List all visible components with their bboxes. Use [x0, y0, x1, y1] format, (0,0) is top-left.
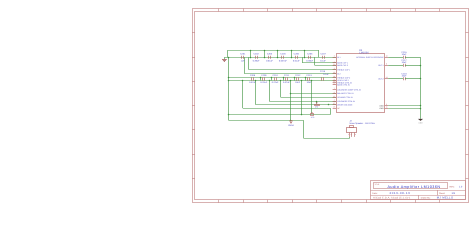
svg-text:KiCad E.D.A. kicad (5.1.4)-1: KiCad E.D.A. kicad (5.1.4)-1: [373, 197, 410, 200]
junction row1 riser: [250, 50, 252, 52]
svg-text:C201: C201: [240, 53, 246, 56]
svg-text:INTERNAL SUPPLY DECOUPLE: INTERNAL SUPPLY DECOUPLE: [356, 56, 384, 59]
svg-text:IN 2: IN 2: [337, 72, 340, 75]
svg-text:0.047uF: 0.047uF: [279, 60, 288, 63]
capacitor C204: [279, 53, 288, 63]
wire staircase2 vertical: [280, 81, 282, 98]
svg-text:4: 4: [334, 99, 335, 102]
U1 pin 5 GND: [379, 103, 388, 107]
svg-text:GND: GND: [379, 104, 384, 107]
svg-text:GND: GND: [419, 122, 424, 125]
svg-text:OUT 1: OUT 1: [378, 64, 383, 67]
U1 pin 13 OUT 2: [378, 76, 388, 80]
svg-text:0.47uF: 0.47uF: [283, 81, 290, 84]
junction control vertical x311: [311, 80, 313, 82]
wire leg to line y69: [248, 57, 250, 69]
capacitor C217: [401, 59, 407, 67]
sheet frame outer border: [193, 9, 469, 203]
U1 pin 8 OUT 1: [378, 63, 388, 67]
svg-text:C213: C213: [306, 74, 312, 77]
capacitor C201: [240, 53, 246, 63]
junction row1 riser: [264, 50, 266, 52]
wire staircase2 horizontal to U1: [281, 97, 336, 99]
wire row1 top rail: [228, 50, 319, 52]
svg-text:20: 20: [333, 63, 335, 66]
svg-text:0.39uF: 0.39uF: [306, 60, 313, 63]
U1 pin 7 LOUDNESS COMP CTRL IN: [333, 87, 362, 91]
U1 pin 16 INTERNAL SUPPLY DECOUPLE: [356, 55, 388, 59]
junction row2 riser: [305, 77, 307, 79]
svg-text:2: 2: [334, 55, 335, 58]
svg-text:17: 17: [333, 102, 335, 105]
U1 pin 17 ZENER VOLTAGE: [333, 102, 354, 106]
wire row1 component line: [224, 57, 336, 59]
wire staircase1 horizontal to U1: [302, 62, 336, 64]
sheet cell separator: [437, 190, 439, 195]
capacitor C213: [306, 74, 312, 84]
capacitor C207: [320, 53, 326, 63]
wire row1 riser: [304, 50, 306, 57]
svg-text:TREBLE CAP 2: TREBLE CAP 2: [337, 77, 350, 80]
svg-text:19: 19: [333, 71, 335, 74]
svg-text:4.7k: 4.7k: [311, 116, 315, 119]
svg-text:C211: C211: [284, 74, 290, 77]
wire row2 riser: [260, 78, 262, 81]
power symbol GND at rail bottom: [418, 119, 423, 125]
svg-text:ZENER VOLTAGE: ZENER VOLTAGE: [337, 104, 353, 107]
U1 pin 10 TREBLE CTRL IN: [333, 80, 353, 84]
svg-text:2019-08-19: 2019-08-19: [390, 191, 411, 195]
svg-text:REV:: REV:: [449, 186, 454, 189]
junction staircase2: [255, 80, 257, 82]
svg-text:18: 18: [333, 75, 335, 78]
capacitor C206: [306, 53, 313, 63]
junction staircase2: [269, 80, 271, 82]
wire staircase1 vertical: [314, 57, 316, 65]
junction row2 riser: [283, 77, 285, 79]
junction row1 riser: [304, 50, 306, 52]
junction row1 riser: [291, 50, 293, 52]
wire rail right drop: [318, 50, 320, 57]
wire E to speaker connector: [304, 138, 350, 140]
capacitor C211: [283, 74, 290, 84]
wire right rail vertical: [420, 57, 422, 119]
wire row2 line a: [229, 77, 336, 79]
U1 pin 6 LEVEL CAP 2: [333, 78, 349, 82]
junction wire B left: [228, 114, 230, 116]
wire staircase2 vertical x243: [242, 81, 244, 109]
wire leg to row2 rail: [244, 57, 246, 73]
svg-text:0.22uF: 0.22uF: [260, 81, 267, 84]
wire link vertical x330: [330, 108, 332, 114]
svg-text:0.01uF: 0.01uF: [293, 60, 300, 63]
wire B horizontal y114: [229, 114, 331, 116]
U1 pin 20 BASS CAP 2: [333, 63, 348, 67]
U1 pin 9 BALANCE CTRL IN: [333, 91, 354, 95]
wire row1 riser: [277, 50, 279, 57]
svg-text:10nF: 10nF: [295, 81, 301, 84]
revision cell: [449, 186, 462, 189]
op-amp U1 LM1036 body: [337, 54, 385, 113]
drawn-by cell: [421, 197, 454, 200]
junction row2 left: [228, 77, 230, 79]
sheet frame inner border: [195, 12, 466, 200]
svg-text:C204: C204: [280, 53, 286, 56]
capacitor C209: [260, 74, 267, 84]
title cell box: [374, 183, 448, 189]
potentiometer RV2: [311, 112, 315, 119]
capacitor C210: [272, 74, 279, 84]
sheet cell: [439, 192, 456, 195]
svg-text:VOLUME CTRL IN: VOLUME CTRL IN: [337, 96, 353, 99]
svg-text:IN 1: IN 1: [337, 56, 340, 59]
potentiometer RV1: [315, 101, 320, 108]
wire staircase2 vertical: [255, 81, 257, 105]
wire left leg vertical: [228, 57, 230, 120]
svg-text:C209: C209: [261, 74, 267, 77]
wire row2 riser: [271, 78, 273, 81]
svg-text:15: 15: [333, 106, 335, 109]
wire C217 to right rail: [405, 65, 421, 67]
frame zone ticks left/right: [192, 33, 469, 179]
wire control vertical x311: [311, 81, 313, 114]
wire row1 riser: [250, 50, 252, 57]
svg-text:C208: C208: [250, 74, 256, 77]
drawn-by cell separator: [418, 195, 420, 200]
connector J2 pins: [350, 133, 355, 137]
junction rail GND joins: [420, 105, 422, 107]
svg-text:16: 16: [386, 55, 388, 58]
wire GND pin 5 to rail: [388, 105, 420, 107]
capacitor C15: [320, 70, 330, 81]
date cell: [372, 191, 410, 195]
svg-text:10uF: 10uF: [402, 53, 408, 56]
wire row1 riser: [264, 50, 266, 57]
svg-text:LOUDNESS COMP CTRL IN: LOUDNESS COMP CTRL IN: [337, 88, 361, 91]
svg-text:Date:: Date:: [372, 192, 378, 195]
junction row2 riser: [294, 77, 296, 79]
svg-text:0.1uF: 0.1uF: [320, 60, 326, 63]
junction center vertical: [290, 80, 292, 82]
svg-text:8: 8: [386, 63, 387, 66]
svg-text:BASS CAP 2: BASS CAP 2: [337, 64, 348, 67]
svg-text:5: 5: [386, 103, 387, 106]
wire C216 to right rail: [405, 57, 421, 59]
svg-text:C202: C202: [253, 53, 259, 56]
wire staircase2 horizontal to U1: [269, 101, 336, 103]
svg-text:TREBLE CAP 1: TREBLE CAP 1: [337, 68, 350, 71]
svg-text:0.01uF: 0.01uF: [266, 60, 273, 63]
svg-text:BASS CTRL IN: BASS CTRL IN: [337, 84, 350, 87]
svg-text:OUT 2: OUT 2: [378, 77, 383, 80]
U1 pin 15 NC: [333, 106, 341, 110]
wire A bottom horizontal y120: [229, 120, 304, 122]
wire U1 to C218: [388, 78, 403, 80]
wire line y69 to U1: [249, 69, 336, 71]
wire y108 to link: [243, 108, 331, 110]
U1 pin 2 IN 1: [333, 55, 341, 59]
svg-text:C210: C210: [272, 74, 278, 77]
title block row separator 1: [371, 190, 466, 192]
svg-text:10uF: 10uF: [402, 75, 408, 78]
wire row1 riser: [291, 50, 293, 57]
svg-text:1uF: 1uF: [241, 60, 245, 63]
junction rail at OUT cap lines: [420, 65, 422, 67]
capacitor C208: [249, 74, 256, 84]
wire U1 to C217: [388, 65, 403, 67]
U1 pin 12 VOLUME CTRL IN: [333, 95, 354, 99]
svg-text:12: 12: [333, 95, 335, 98]
svg-text:13: 13: [386, 76, 388, 79]
wire rail left drop: [227, 50, 229, 57]
wire row2 rail: [244, 73, 336, 75]
svg-text:BALANCE CTRL IN: BALANCE CTRL IN: [337, 92, 354, 95]
wire staircase2 horizontal to U1: [256, 104, 336, 106]
svg-text:0.39uF: 0.39uF: [253, 60, 260, 63]
connector J2 pin numbers: [348, 133, 356, 136]
svg-text:0.1uF: 0.1uF: [323, 73, 329, 76]
U1 pin 11 GND: [379, 106, 388, 110]
junction staircase2: [280, 80, 282, 82]
capacitor C205: [293, 53, 300, 63]
wire staircase2 vertical: [269, 81, 271, 102]
svg-text:0.22uF: 0.22uF: [272, 81, 279, 84]
connector J2 top tab: [350, 126, 354, 128]
frame zone ticks top/bottom: [219, 9, 440, 203]
svg-text:MJ MELLO: MJ MELLO: [437, 197, 454, 200]
U1 pin 19 IN 2: [333, 71, 341, 75]
svg-text:Mono Speaker - 1W 8 Ohm: Mono Speaker - 1W 8 Ohm: [350, 122, 376, 125]
capacitor C202: [253, 53, 260, 63]
U1 pin 1 BASS CAP 1: [333, 60, 348, 64]
U1 pin 3 TREBLE CAP 1: [333, 67, 351, 71]
wire E stub up to J2 pin: [349, 137, 351, 139]
junction staircase2 x243: [242, 80, 244, 82]
svg-text:C207: C207: [320, 53, 326, 56]
svg-text:LM1036: LM1036: [359, 52, 369, 55]
junction left leg top: [228, 57, 230, 59]
svg-text:LOUDNESS CTRL IN: LOUDNESS CTRL IN: [337, 100, 355, 103]
junction control vertical x301: [301, 80, 303, 82]
wire row2 riser: [283, 78, 285, 81]
wire GND pin 11 to rail: [388, 108, 420, 110]
wire C218 to right rail: [405, 78, 421, 80]
wire balance line y93 from center vertical: [291, 93, 336, 95]
wire staircase1 vertical: [302, 57, 304, 63]
svg-text:7: 7: [334, 87, 335, 90]
capacitor C216: [401, 51, 407, 59]
wire U1 to C216: [388, 57, 403, 59]
connector J2 body: [347, 128, 357, 133]
wire row2 line b: [229, 80, 336, 82]
power symbol GNDA: [288, 121, 294, 128]
U1 pin 14 BASS CTRL IN: [333, 82, 351, 86]
svg-text:47k: 47k: [315, 106, 318, 109]
ground G1: [222, 57, 227, 61]
svg-text:9: 9: [334, 91, 335, 94]
title block row separator 2: [371, 195, 466, 197]
junction row2 riser: [260, 77, 262, 79]
wire center vertical to bottom: [290, 81, 292, 121]
junction row1 riser: [277, 50, 279, 52]
svg-text:3: 3: [334, 67, 335, 70]
junction on volume line: [328, 104, 330, 106]
capacitor C203: [266, 53, 273, 63]
svg-text:GND: GND: [379, 107, 384, 110]
svg-text:1/1: 1/1: [452, 192, 456, 195]
wire row2 riser: [294, 78, 296, 81]
wire control vertical x301: [301, 81, 303, 115]
svg-text:C206: C206: [307, 53, 313, 56]
capacitor C212: [295, 74, 301, 84]
junction row2 riser: [271, 77, 273, 79]
svg-text:C203: C203: [267, 53, 273, 56]
svg-text:C212: C212: [295, 74, 301, 77]
svg-text:C215: C215: [320, 70, 326, 73]
junction RV1 wiper top: [316, 101, 318, 103]
capacitor C218: [401, 72, 407, 80]
svg-text:Audio Amplifier LM1036N: Audio Amplifier LM1036N: [387, 185, 440, 189]
svg-text:Sheet:: Sheet:: [439, 192, 445, 195]
title block outline: [371, 181, 466, 200]
svg-text:11: 11: [386, 106, 388, 109]
wire A corner down: [303, 121, 305, 139]
U1 pin 18 TREBLE CAP 2: [333, 75, 351, 79]
svg-text:TITLE:: TITLE:: [374, 183, 380, 186]
svg-text:C205: C205: [294, 53, 300, 56]
svg-text:Drawn By:: Drawn By:: [421, 197, 431, 200]
svg-text:10uF: 10uF: [402, 61, 408, 64]
wire staircase1 horizontal to U1: [315, 65, 336, 67]
svg-text:14: 14: [333, 82, 335, 85]
wire row2 riser: [305, 78, 307, 81]
U1 pin 4 LOUDNESS CTRL IN: [333, 99, 356, 103]
svg-text:GNDA: GNDA: [288, 124, 294, 127]
